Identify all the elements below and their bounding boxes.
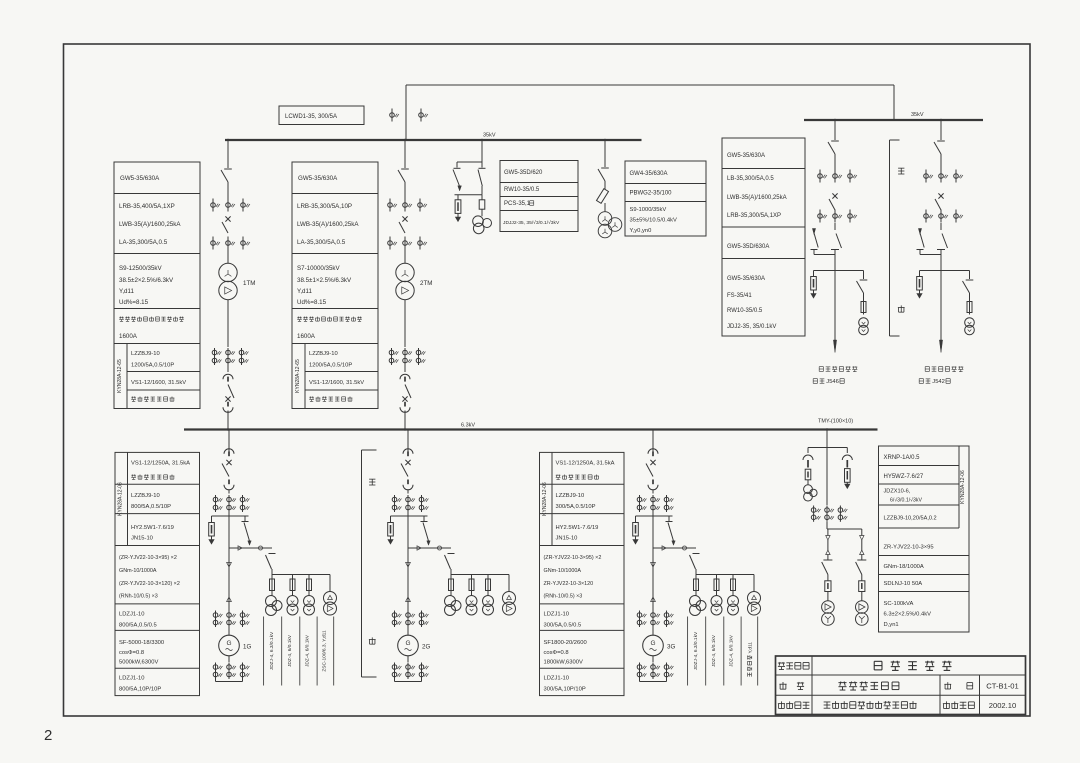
drawout link 3G [653,547,696,549]
line disconnector with earthing switch [940,223,942,230]
label box GW4 bay [625,161,706,236]
disconnector PT branch 2G [423,516,425,521]
svg-text:S9-12500/35kV: S9-12500/35kV [119,265,163,272]
fuse PT2 3G [716,575,718,580]
disconnector PT rail 2G [448,553,455,555]
wire feeder branch header [920,270,970,272]
svg-text:LRB-35,300/5A,1XP: LRB-35,300/5A,1XP [727,213,781,219]
voltage transformer JDZJ 1G [271,591,273,597]
svg-text:2G: 2G [422,644,430,651]
wire feeder 七北 from bus [834,120,836,140]
wire generator 1G from bus [228,430,230,452]
label feeder line name [813,379,824,384]
wire station service header [808,447,847,449]
drawout contact lower 1G [228,480,230,485]
svg-text:LZZBJ9-10,20/5A,0.2: LZZBJ9-10,20/5A,0.2 [884,516,937,522]
svg-text:LWB-35(A)/1600,25kA: LWB-35(A)/1600,25kA [297,221,359,228]
35kV left busbar [225,139,642,141]
svg-text:LDZJ1-10: LDZJ1-10 [544,676,569,682]
wire 3G [652,512,654,516]
voltage transformer JDZ2 1G [292,591,294,596]
CT row feeder upper [925,170,927,183]
CT row feeder lower [925,210,927,223]
wire bay 1TM to transformer [227,250,229,264]
fuse PT right branch [481,195,483,200]
wire 2G [407,512,409,516]
CT group bay 2TM 6kV side [391,348,393,365]
label box generator rows [115,452,200,695]
svg-text:JDZ-4, 6/0.1kV: JDZ-4, 6/0.1kV [711,634,717,667]
grounding transformer 1G [329,575,331,592]
svg-text:LZZBJ9-10: LZZBJ9-10 [131,493,160,499]
svg-text:LRB-35,300/5A,10P: LRB-35,300/5A,10P [297,203,352,210]
svg-text:ZR-YJV22-10-3×95: ZR-YJV22-10-3×95 [884,545,934,551]
wire tie riser to right bus [893,85,895,120]
svg-text:LA-35,300/5A,0.5: LA-35,300/5A,0.5 [119,239,168,246]
wire feeder branch header [814,270,864,272]
svg-text:LRB-35,400/5A,1XP: LRB-35,400/5A,1XP [119,203,175,210]
wire station service split [826,522,828,529]
label sub-strip KYN28A [551,452,553,545]
breaker bay 1TM 6kV [228,385,234,399]
svg-text:1G: 1G [243,644,251,651]
voltage transformer JDZ2 3G [716,591,718,596]
title block row lines [776,674,1026,676]
label design time heading [943,701,974,708]
svg-text:1TM: 1TM [243,280,255,287]
grounding transformer 2G [508,575,510,592]
svg-text:SDLNJ-10 50A: SDLNJ-10 50A [884,581,923,587]
drawout contact upper 2G [403,449,413,454]
svg-text:SC-100kVA: SC-100kVA [884,601,914,607]
svg-text:cosΦ=0.8: cosΦ=0.8 [119,650,144,656]
fuse station transformer [825,581,831,592]
svg-text:G: G [405,640,410,647]
svg-text:Ud%=8.15: Ud%=8.15 [119,299,149,306]
neutral link 1G [216,681,243,683]
station transformer drop wire [827,529,829,536]
branch header 3G [636,515,673,517]
generator 2G circle [407,627,409,635]
svg-text:JN15-10: JN15-10 [556,536,578,542]
label enclosed busbar bay 2TM [297,317,362,322]
label box bay 2TM [292,162,378,409]
PT with fuse station service left branch [807,448,809,454]
svg-text:XRNP-1A/0.5: XRNP-1A/0.5 [884,455,921,461]
label same 2G [369,479,375,485]
label left [898,305,905,312]
svg-text:LCWD1-35, 300/5A: LCWD1-35, 300/5A [285,114,337,120]
voltage transformer JDZ3 3G [732,591,734,596]
svg-text:PBWG2-35/100: PBWG2-35/100 [630,191,673,197]
svg-text:HY5WZ-7.6/27: HY5WZ-7.6/27 [884,474,924,480]
drawout link 1G [229,547,272,549]
CT row bay 2TM upper [389,199,391,212]
svg-text:HY2.5W1-7.6/19: HY2.5W1-7.6/19 [556,525,599,531]
disconnector PT branch 3G [668,516,670,521]
PT rail 1G [272,574,330,576]
CT group station service [813,506,815,522]
svg-text:VS1-12/1600, 31.5kV: VS1-12/1600, 31.5kV [309,380,364,386]
disconnector PT branch 1G [244,516,246,521]
svg-text:cosΦ=0.8: cosΦ=0.8 [544,650,569,656]
breaker feeder [938,193,943,198]
svg-text:KYN28A-12-06: KYN28A-12-06 [542,482,548,516]
grounding transformer 3G [753,575,755,592]
arrester feeder [919,271,921,277]
label box generator rows [540,452,625,695]
svg-text:JDZ-4, 6/0.1kV: JDZ-4, 6/0.1kV [305,634,311,667]
svg-text:CT-B1-01: CT-B1-01 [986,682,1019,691]
disconnector PT left branch [456,162,458,168]
CT group 2G above generator [394,611,396,628]
bracket same-as-left generator 2G [361,450,363,677]
svg-text:FS-35/41: FS-35/41 [727,293,752,299]
disconnector feeder upper [937,140,945,142]
disconnector PT branch feeder [969,271,971,280]
label box PT bay [500,161,578,232]
bracket same-as-left 35kV feeder 2 [889,140,891,336]
svg-text:(ZR-YJV22-10-3×95) ×2: (ZR-YJV22-10-3×95) ×2 [119,555,177,561]
label box LCWD1-35 tie CT [279,106,364,125]
wire bay 2TM [404,365,406,372]
CT tie right [420,109,422,122]
wire feeder outgoing with arrow [940,271,942,345]
breaker 1G [226,460,231,465]
transformer S9-1000 three-winding [598,212,612,226]
svg-text:(ZR-YJV22-10-3×120) ×2: (ZR-YJV22-10-3×120) ×2 [119,581,180,587]
station transformer drop wire [861,529,863,536]
fuse PT3 3G [732,575,734,580]
svg-text:GNm-18/1000A: GNm-18/1000A [884,564,924,570]
drawout contact upper 1G [224,449,234,454]
voltage transformer JDZ2 2G [471,591,473,596]
svg-text:RW10-35/0.5: RW10-35/0.5 [504,187,540,193]
wire 1G main drop [228,516,230,632]
svg-text:1800kW,6300V: 1800kW,6300V [544,660,583,666]
svg-text:1200/5A,0.5/10P: 1200/5A,0.5/10P [309,363,352,369]
arrester feeder [813,271,815,277]
title Changtan hydropower station [874,661,882,670]
svg-text:LB-35,300/5A,0.5: LB-35,300/5A,0.5 [727,176,774,182]
disconnector station transformer [823,559,832,561]
svg-text:Y,d11: Y,d11 [119,288,134,295]
svg-text:VS1-12/1250A, 31.5kA: VS1-12/1250A, 31.5kA [556,461,615,467]
drawout contact lower bay 1TM [227,402,229,407]
label cells PT 3G [687,617,689,686]
svg-text:300/5A,0.5/0.5: 300/5A,0.5/0.5 [544,623,582,629]
disconnector PT rail 1G [269,553,276,555]
wire station service main [826,448,828,506]
svg-text:KYN28A-12-06: KYN28A-12-06 [118,482,124,516]
wire generator 3G from bus [652,430,654,452]
design unit name [824,701,917,709]
neutral link 2G [395,681,422,683]
label sub-box KYN28A bay 2TM [304,344,306,409]
PT rail 3G [696,574,754,576]
wire 1G [228,512,230,516]
CT group 1G above generator [215,611,217,628]
wire bay 1TM [227,182,229,199]
svg-text:JDZX10-6,: JDZX10-6, [884,489,911,495]
svg-text:JN15-10: JN15-10 [131,536,153,542]
generator 3G circle [652,627,654,635]
wire PT bay header [457,161,482,163]
svg-text:GW5-35/630A: GW5-35/630A [727,276,765,282]
label box outgoing feeders [722,138,805,336]
svg-text:GW4-35/630A: GW4-35/630A [630,171,668,177]
wire feeder outgoing with arrow [834,271,836,345]
CT row bay 1TM upper [212,199,214,212]
drawing border frame [64,44,1031,716]
svg-text:LDZJ1-10: LDZJ1-10 [119,612,144,618]
svg-text:KYN28A-12-65: KYN28A-12-65 [295,359,301,393]
transformer 1TM two-winding [219,263,237,281]
wire bay 1TM [227,365,229,372]
svg-text:(ZR-YJV22-10-3×95) ×2: (ZR-YJV22-10-3×95) ×2 [544,555,602,561]
breaker bay 2TM 6kV [405,385,411,399]
wire 2G main drop [407,516,409,632]
CT row bay 2TM lower [389,237,391,250]
svg-text:VS1-12/1250A, 31.5kA: VS1-12/1250A, 31.5kA [131,461,190,467]
CT group 1G upper [215,495,217,512]
svg-text:Y,d11: Y,d11 [748,642,754,654]
svg-text:GW5-35D/630A: GW5-35D/630A [727,244,769,250]
svg-text:JDZJ-4, 6.3/0.1kV: JDZJ-4, 6.3/0.1kV [693,631,699,670]
svg-text:(RNh-10/0.5) ×3: (RNh-10/0.5) ×3 [544,594,583,600]
branch header 2G [391,515,428,517]
voltage transformer feeder [859,318,869,328]
svg-text:RW10-35/0.5: RW10-35/0.5 [727,308,763,314]
label drawing name heading [779,682,786,689]
svg-text:Y,d11: Y,d11 [297,288,312,295]
voltage transformer JDZ3 1G [308,591,310,596]
CT group bay 1TM 6kV side [214,348,216,365]
label project name heading [778,662,809,670]
label feeder destination [925,366,963,371]
label feeder destination [819,366,857,371]
disconnector PT right branch [481,162,483,168]
CT tie left [391,109,393,122]
svg-text:GW5-35D/620: GW5-35D/620 [504,170,543,176]
CT group 3G upper [639,495,641,512]
label box bay 1TM [114,162,200,409]
svg-text:6.3kV: 6.3kV [461,423,475,429]
svg-text:300/5A,0.5/10P: 300/5A,0.5/10P [556,504,596,510]
CT group 2G upper [394,495,396,512]
svg-text:VS1-12/1600, 31.5kV: VS1-12/1600, 31.5kV [131,380,186,386]
wire station service riser [826,430,828,448]
generator 1G circle [228,627,230,635]
wire generator 2G from bus [407,430,409,452]
svg-text:SF1800-20/2600: SF1800-20/2600 [544,640,587,646]
drawout link 2G [408,547,451,549]
svg-text:1600A: 1600A [297,333,316,340]
disconnector station transformer [857,559,866,561]
svg-text:SF-5000-18/3300: SF-5000-18/3300 [119,640,164,646]
wire bay 2TM to 6.3kV bus [404,411,406,430]
svg-text:LA-35,300/5A,0.5: LA-35,300/5A,0.5 [297,239,346,246]
svg-text:800/5A,0.5/10P: 800/5A,0.5/10P [131,504,171,510]
disconnector feeder upper [831,140,839,142]
CT group 3G above generator [639,611,641,628]
svg-text:800/5A,10P/10P: 800/5A,10P/10P [119,687,161,693]
arrester 2G [390,516,392,523]
svg-text:1600A: 1600A [119,333,138,340]
fuse PT2 1G [292,575,294,580]
wire feeder 七紫 from bus [940,120,942,140]
neutral link 3G [640,681,667,683]
fuse PT1 2G [450,575,452,580]
wire tie riser from left bus [405,85,407,140]
svg-text:Y,y0,yn0: Y,y0,yn0 [630,228,652,234]
wire tie top horizontal [406,84,894,86]
svg-text:35kV: 35kV [911,112,924,118]
svg-text:35±5%/10.5/0.4kV: 35±5%/10.5/0.4kV [630,218,677,224]
drawout contact upper bay 1TM [223,374,233,379]
svg-text:S7-10000/35kV: S7-10000/35kV [297,265,341,272]
svg-text:5000kW,6300V: 5000kW,6300V [119,660,158,666]
svg-text:LWB-35(A)/1600,25kA: LWB-35(A)/1600,25kA [727,195,787,201]
svg-text:LZZBJ9-10: LZZBJ9-10 [131,351,160,357]
label cells PT 1G [263,617,265,686]
svg-text:2TM: 2TM [420,280,432,287]
label left 2G [369,637,376,644]
line disconnector with earthing switch [834,223,836,230]
svg-text:PCS-35,1: PCS-35,1 [504,201,531,207]
svg-text:LWB-35(A)/1600,25kA: LWB-35(A)/1600,25kA [119,221,181,228]
arrester with fuse station service right branch [846,448,848,454]
svg-text:(RNh-10/0.5) ×3: (RNh-10/0.5) ×3 [119,594,158,600]
breaker feeder [832,193,837,198]
svg-text:GNm-10/1000A: GNm-10/1000A [119,568,157,574]
svg-text:GNm-10/1000A: GNm-10/1000A [544,568,582,574]
label enclosed busbar bay 1TM [119,317,184,322]
wire bay 1TM below transformer [227,300,229,347]
svg-text:JDZ-4, 6/0.1kV: JDZ-4, 6/0.1kV [729,634,735,667]
svg-text:GW5-35/630A: GW5-35/630A [727,153,765,159]
voltage transformer JDZ3 2G [487,591,489,596]
svg-text:J546: J546 [826,379,839,385]
fuse PT branch feeder [969,293,971,302]
svg-text:6.3±2×2.5%/0.4kV: 6.3±2×2.5%/0.4kV [884,612,932,618]
disconnector bay 2TM upper [401,168,409,170]
svg-text:LDZJ1-10: LDZJ1-10 [119,676,144,682]
breaker 2G [405,460,410,465]
svg-text:1200/5A,0.5/10P: 1200/5A,0.5/10P [131,363,174,369]
arrester 1G [211,516,213,523]
disconnector PT rail 3G [693,553,700,555]
label sub-box KYN28A bay 1TM [126,344,128,409]
svg-text:GW5-35/630A: GW5-35/630A [298,175,338,182]
svg-text:800/5A,0.5/0.5: 800/5A,0.5/0.5 [119,623,157,629]
fuse PT2 2G [471,575,473,580]
fuse PT branch feeder [863,293,865,302]
voltage transformer feeder [965,318,975,328]
transformer SC-100 two-winding [822,601,835,614]
svg-text:2: 2 [44,727,52,744]
wire bay 2TM to transformer [404,250,406,264]
fuse PT3 1G [308,575,310,580]
svg-text:38.5±2×2.5%/6.3kV: 38.5±2×2.5%/6.3kV [119,277,174,284]
svg-text:G: G [226,640,231,647]
label feeder line name [919,379,930,384]
fuse station transformer [859,581,865,592]
svg-text:35kV: 35kV [483,133,496,139]
CT group 1G below generator [228,656,230,662]
svg-text:LZZBJ9-10: LZZBJ9-10 [309,351,338,357]
svg-text:2002.10: 2002.10 [989,701,1016,710]
label box station service [879,446,970,632]
label same [898,168,904,174]
wire GW4 bay riser [604,140,606,167]
arrester 3G [635,516,637,523]
drawout contact upper 3G [648,449,658,454]
wire 3G main drop [652,516,654,632]
svg-text:ZSC-100/6.3, Y,d11: ZSC-100/6.3, Y,d11 [322,630,328,672]
fuse drop-out GW4 bay [597,189,609,204]
svg-text:JDZ-4, 6/0.1kV: JDZ-4, 6/0.1kV [287,634,293,667]
voltage transformer JDZJ 2G [450,591,452,597]
fuse PT1 3G [695,575,697,580]
wire PT bay riser [481,140,483,162]
CT row feeder upper [819,170,821,183]
svg-text:JDZJ-4, 6.3/0.1kV: JDZJ-4, 6.3/0.1kV [269,631,275,670]
arrester PT left branch [457,195,459,200]
title main electrical diagram [838,681,898,690]
svg-text:G: G [650,640,655,647]
label drawing number heading [944,682,951,689]
wire bay 1TM from bus [227,140,229,168]
transformer SC-100 two-winding [856,601,869,614]
label sub-strip KYN28A [127,452,129,545]
wire PT bay lower header [455,194,483,196]
svg-text:S9-1000/35kV: S9-1000/35kV [630,207,667,213]
wire GW4 bay [604,181,606,189]
wire bay 1TM to 6.3kV bus [227,411,229,430]
svg-text:D,yn1: D,yn1 [884,622,899,628]
breaker bay 1TM [225,216,230,221]
voltage transformer JDJJ2-35 three-winding [473,216,484,227]
svg-text:6/√3/0.1/√3kV: 6/√3/0.1/√3kV [890,497,922,504]
svg-text:LDZJ1-10: LDZJ1-10 [544,612,569,618]
transformer 2TM two-winding [396,263,414,281]
svg-text:300/5A,10P/10P: 300/5A,10P/10P [544,687,586,693]
svg-text:3G: 3G [667,644,675,651]
drawout contact lower 2G [407,480,409,485]
disconnector bay 1TM upper [224,168,232,170]
title block column lines [811,656,813,715]
drawout contact lower 3G [652,480,654,485]
CT row feeder lower [819,210,821,223]
svg-text:LZZBJ9-10: LZZBJ9-10 [556,493,585,499]
35kV right busbar [804,119,983,121]
CT row bay 1TM lower [212,237,214,250]
disconnector GW4 bay [601,167,609,169]
voltage transformer JDZJ 3G [695,591,697,597]
svg-text:TMY-(100×10): TMY-(100×10) [818,419,853,425]
svg-text:KYN28A-12-06: KYN28A-12-06 [960,470,966,504]
svg-text:HY2.5W1-7.6/19: HY2.5W1-7.6/19 [131,525,174,531]
svg-text:JDJJ2-35, 35/√3/0.1/√3kV: JDJJ2-35, 35/√3/0.1/√3kV [503,219,560,226]
label design unit heading [778,701,809,708]
fuse PT3 2G [487,575,489,580]
svg-text:KYN28A-12-65: KYN28A-12-65 [117,359,123,393]
CT group 3G below generator [652,656,654,662]
svg-text:JDJ2-35, 35/0.1kV: JDJ2-35, 35/0.1kV [727,324,776,330]
title block outer [776,656,1026,715]
fuse PT1 1G [271,575,273,580]
